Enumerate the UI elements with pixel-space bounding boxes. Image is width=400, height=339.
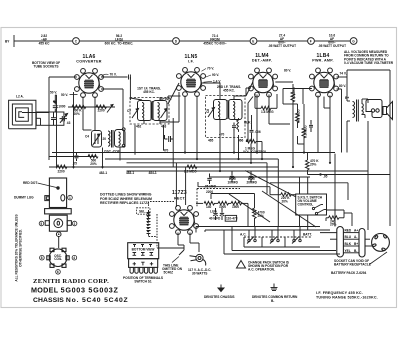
node G: [350, 38, 357, 45]
svg-text:4: 4: [73, 256, 75, 260]
wire 220K: [198, 177, 352, 230]
alignment label 56.2: [105, 34, 134, 45]
svg-text:1000: 1000: [58, 105, 65, 109]
changeover switch dashed bar: [244, 236, 312, 238]
1st IF transformer T1 dashed box: [130, 98, 169, 125]
receptacle labels: [345, 229, 359, 253]
svg-text:20%: 20%: [330, 223, 337, 227]
T1 title 1st IF trans 455KC: [137, 87, 161, 95]
resistor 220K: [281, 193, 292, 204]
cap .05 on bus: [207, 174, 211, 185]
resistor 500 value: [90, 159, 97, 166]
note: bottom view of tube sockets: [32, 61, 60, 69]
svg-text:SEL.: SEL.: [139, 210, 146, 214]
battery strip wires upper: [196, 227, 340, 255]
antenna tuning section box: [36, 112, 64, 125]
AC plug P1: [190, 254, 206, 265]
volume control resistor 1 MEG: [246, 140, 256, 144]
alignment label 72.4: [203, 34, 226, 45]
wire resistor row: [214, 203, 248, 226]
svg-text:110-473: 110-473: [226, 217, 238, 221]
svg-text:RECT.: RECT.: [174, 196, 186, 200]
svg-text:70 V.: 70 V.: [110, 73, 117, 77]
battery receptacle strip right: [359, 229, 365, 258]
S1 bottom view text: [132, 248, 155, 252]
T2 lead wires: [201, 83, 251, 138]
svg-text:140: 140: [206, 205, 212, 209]
electrolytic cap 40MFD a: [213, 208, 217, 220]
svg-text:90 V.: 90 V.: [212, 73, 219, 77]
resistor 500 20%: [88, 155, 98, 159]
S1 terminals top row: [133, 245, 152, 248]
oscillator trimmer C4 box: [92, 131, 102, 148]
battery terminal oval: [61, 195, 65, 201]
svg-text:2200: 2200: [58, 169, 65, 173]
volume control arrow: [250, 144, 252, 147]
changeover contact b: [270, 237, 279, 244]
resistor 2200 on L4: [57, 165, 67, 173]
alignment label 2.82 AF 455KC: [39, 34, 51, 45]
circled 7 terminal below: [56, 232, 61, 237]
junction dot 470K: [319, 173, 321, 175]
svg-text:2: 2: [74, 222, 76, 226]
svg-text:BATTERY RECEPTACLE: BATTERY RECEPTACLE: [334, 262, 371, 266]
T1 core: [151, 101, 153, 120]
T2 primary winding: [214, 100, 228, 120]
socket note: [334, 252, 387, 266]
circled 4: [72, 255, 77, 260]
wire 117Z3 top feeds: [176, 163, 203, 207]
svg-text:455 KC: 455 KC: [39, 41, 51, 45]
vertical bus 1LN5 cathode: [160, 92, 197, 159]
node C: [73, 38, 80, 45]
circled 6: [56, 270, 61, 275]
svg-text:BOTTOM VIEW: BOTTOM VIEW: [132, 248, 155, 252]
output transformer T3 secondary: [362, 104, 364, 115]
1LA6 plate label 70V: [102, 73, 117, 77]
svg-text:FOR 5C40Z WHERE SELENIUM: FOR 5C40Z WHERE SELENIUM: [100, 197, 152, 201]
svg-text:L2 A.: L2 A.: [16, 95, 24, 99]
T2 trimmer cap C9: [232, 123, 236, 132]
battery plug circle: [372, 234, 390, 252]
S1 solder lugs: [130, 267, 157, 273]
node F: [308, 38, 315, 45]
battery pack flange plate: [45, 209, 72, 214]
spst blades: [312, 205, 326, 215]
tube V1 1LA6 converter: [61, 54, 104, 98]
diagonal wire c: [229, 194, 270, 222]
detector diode load wires: [246, 82, 253, 115]
bus wire L2: [105, 158, 278, 160]
svg-text:CHASSIS No. 5C40 5C40Z: CHASSIS No. 5C40 5C40Z: [33, 297, 128, 304]
svg-text:74 V.: 74 V.: [340, 72, 347, 76]
selenium note: [100, 192, 152, 205]
alignment label 10.6: [318, 34, 346, 48]
trimmer arrow under 1LA6: [107, 105, 113, 113]
tube V3 1LM4 det-amp: [249, 53, 292, 97]
svg-text:0-4 VACUUM TUBE VOLTMETER: 0-4 VACUUM TUBE VOLTMETER: [344, 61, 394, 65]
vertical note all resistors: [15, 214, 23, 281]
svg-text:BATTERY PACK Z-6294: BATTERY PACK Z-6294: [331, 271, 367, 275]
svg-text:6: 6: [57, 270, 59, 274]
resistor 1000: [218, 201, 228, 208]
resistor 470K vertical: [306, 159, 320, 170]
junction dot antenna node: [54, 101, 57, 104]
red dot label: [23, 181, 57, 188]
svg-text:470: 470: [163, 149, 169, 153]
junction dots main buses: [53, 100, 331, 172]
svg-text:117Z3: 117Z3: [172, 190, 187, 196]
svg-text:43: 43: [67, 121, 71, 125]
diagonal wire a: [245, 171, 296, 198]
svg-text:462: 462: [136, 125, 142, 129]
bus wire L5: [127, 170, 369, 172]
svg-text:80 V.: 80 V.: [284, 69, 291, 73]
resistor 1500: [231, 201, 241, 208]
svg-text:DOTTED LINES SHOW WIRING: DOTTED LINES SHOW WIRING: [100, 192, 152, 196]
node E: [250, 38, 257, 45]
svg-text:TUBE SOCKETS: TUBE SOCKETS: [34, 64, 59, 68]
denotes chassis symbol: [218, 285, 224, 292]
bus wire L4: [49, 166, 278, 168]
label 40 MFD: [209, 210, 221, 221]
capacitor .006: [250, 125, 254, 137]
battery receptacle strip left: [337, 227, 344, 258]
heater dropping dashed wire: [197, 189, 240, 208]
svg-text:B+: B+: [354, 242, 358, 246]
electrolytic cap 40MFD b: [220, 208, 224, 220]
plug rating label: [188, 268, 211, 276]
change pack switch warning triangle: [237, 261, 246, 269]
svg-text:I.F. FREQUENCY 455 KC.: I.F. FREQUENCY 455 KC.: [316, 291, 363, 295]
cap 470 grid: [165, 135, 174, 142]
dummy lug: [45, 196, 50, 201]
svg-text:SWITCH S1: SWITCH S1: [134, 280, 152, 284]
trimmer capacitor C2 with arrow: [60, 114, 68, 123]
resistor 2.2 MEG on L4: [184, 165, 197, 173]
svg-text:484-1: 484-1: [149, 171, 157, 175]
vertical bus det amp leads: [246, 82, 304, 167]
svg-text:F: F: [310, 39, 312, 43]
svg-text:CONTROL: CONTROL: [298, 203, 314, 207]
svg-text:RED: RED: [345, 229, 352, 233]
osc coil socket bottom view: [47, 248, 69, 267]
T2 core: [227, 100, 229, 119]
svg-text:455 KC.: 455 KC.: [143, 90, 155, 94]
svg-text:455 KC.: 455 KC.: [223, 89, 235, 93]
T2 title 2nd IF trans 455KC: [217, 85, 241, 93]
T1 trimmer arrow left: [132, 109, 139, 119]
oscillator coil secondary box: [115, 130, 126, 148]
resistor 240: [329, 216, 340, 227]
capacitor .05 osc: [75, 153, 79, 162]
svg-text:A-: A-: [354, 235, 357, 239]
tube V5 117Z3 rectifier: [170, 190, 199, 234]
wire lower B bus: [270, 154, 348, 227]
changeover contact a: [247, 237, 256, 244]
svg-text:B+: B+: [345, 96, 349, 100]
svg-text:MODEL 5G003 5G003Z: MODEL 5G003 5G003Z: [31, 286, 119, 295]
svg-text:.006: .006: [255, 130, 261, 134]
speaker voice coil box: [366, 100, 382, 118]
svg-text:DUMMY LUG: DUMMY LUG: [14, 196, 34, 200]
wire det to grid: [255, 94, 277, 108]
wire to socket: [58, 237, 60, 249]
lower terminal circle: [54, 219, 63, 228]
resistor 1.8 MEG: [261, 106, 271, 110]
T2 secondary winding: [229, 100, 243, 120]
capacitor 1000: [53, 99, 58, 112]
T2 trimmer arrow left: [208, 108, 215, 118]
svg-text:A.C. OPERATION.: A.C. OPERATION.: [248, 268, 275, 272]
svg-text:1000: 1000: [219, 205, 226, 209]
svg-text:465: 465: [208, 139, 214, 143]
bus wire L3: [127, 162, 268, 164]
part box 110-473: [225, 215, 238, 221]
spst text: [298, 195, 323, 206]
caps on B+ bus 20MFD: [249, 171, 253, 182]
diagonal wire b: [262, 191, 316, 227]
svg-text:A.C.: A.C.: [240, 233, 246, 237]
speaker cone: [383, 102, 393, 120]
tuning capacitor C1: [51, 112, 56, 125]
circled 5: [39, 221, 44, 226]
battery pack lower case: [49, 215, 67, 231]
bus wire L1: [52, 152, 335, 154]
svg-text:DENOTES CHASSIS: DENOTES CHASSIS: [204, 295, 234, 299]
svg-text:BLK: BLK: [345, 242, 352, 246]
this line omitted note: [162, 257, 183, 275]
svg-text:PWR. AMP.: PWR. AMP.: [312, 59, 334, 63]
svg-text:483-1: 483-1: [126, 171, 134, 175]
svg-text:600 KC. TO 455KC.: 600 KC. TO 455KC.: [105, 41, 134, 45]
resistor 4.7 MEG vertical: [296, 113, 300, 123]
svg-text:1.8 MEG: 1.8 MEG: [261, 110, 274, 114]
T1 trimmer terminals: [122, 128, 125, 147]
circled 2: [72, 221, 77, 226]
resistor 4700 vertical: [253, 208, 265, 218]
S1 terminals mid row: [133, 253, 154, 256]
svg-text:5: 5: [40, 222, 42, 226]
svg-text:COIL: COIL: [54, 257, 62, 261]
svg-text:YEL: YEL: [345, 249, 351, 253]
1 MEG VOL CONTROL label: [243, 147, 267, 155]
alignment chart wire: [14, 35, 350, 47]
S1 caption: [123, 276, 163, 284]
battery pack top case: [49, 178, 66, 208]
svg-text:20: 20: [103, 137, 107, 141]
T2 grid resistor 4700: [237, 118, 239, 132]
node D: [173, 38, 180, 45]
svg-text:TUNING RANGE 535KC.-1620KC.: TUNING RANGE 535KC.-1620KC.: [316, 296, 378, 300]
svg-text:I.F.: I.F.: [188, 60, 194, 64]
loop antenna L2A: [9, 100, 36, 129]
svg-text:C4: C4: [85, 135, 89, 139]
svg-text:1: 1: [69, 196, 71, 200]
spst switch box: [296, 194, 327, 215]
red dot: [56, 186, 59, 189]
svg-text:B-: B-: [271, 299, 274, 303]
grid coupling cap .01: [309, 120, 313, 132]
S1 lower terminals: [133, 262, 154, 265]
socket inner label: [54, 254, 62, 261]
svg-text:RED DOT: RED DOT: [23, 181, 37, 185]
T1 trimmer arrow right: [161, 109, 168, 119]
wire 1LB4 plate to output transformer: [337, 77, 351, 153]
resistor 3.3 MEG vertical: [302, 128, 306, 138]
svg-text:ZENITH RADIO CORP.: ZENITH RADIO CORP.: [33, 278, 109, 285]
vertical bus T2 leads down: [220, 123, 239, 171]
svg-text:BLU: BLU: [345, 235, 352, 239]
wire T1 leads: [101, 75, 181, 129]
svg-text:50 V.: 50 V.: [50, 91, 57, 95]
resistor 140: [204, 201, 214, 208]
svg-text:DET.-AMP.: DET.-AMP.: [252, 59, 272, 63]
svg-text:CONVERTER: CONVERTER: [76, 60, 101, 64]
wire bus to selenium: [149, 202, 175, 249]
svg-text:2200: 2200: [98, 108, 105, 112]
lower lug left: [45, 221, 49, 226]
wire 4700: [211, 194, 255, 227]
selenium rectifier SEL dashed: [137, 208, 151, 214]
svg-text:8: 8: [41, 256, 43, 260]
svg-text:VOL. CONTROL: VOL. CONTROL: [243, 150, 267, 154]
trimmer C4 arrow: [93, 134, 101, 146]
caps on B+ bus 10MFD: [230, 171, 234, 182]
svg-text:C8: C8: [206, 109, 210, 113]
output transformer T3 primary: [353, 100, 359, 122]
resistor 500K under 1LA6: [72, 105, 86, 116]
wire under 1LA6: [68, 106, 115, 108]
svg-text:.05: .05: [323, 175, 328, 179]
T1 secondary lead down: [135, 118, 173, 167]
svg-text:20%: 20%: [90, 162, 97, 166]
wire 470K: [308, 153, 391, 175]
wire 1LA6 pins down to osc: [49, 92, 120, 169]
svg-text:BATT.: BATT.: [303, 233, 312, 237]
changeover contact c: [292, 237, 301, 244]
svg-text:1500: 1500: [232, 205, 239, 209]
svg-text:50 V.: 50 V.: [61, 93, 68, 97]
right vertical bus to battery: [347, 70, 390, 226]
receptacle wire rungs: [320, 233, 372, 253]
2nd IF transformer T2 dashed box: [206, 96, 246, 138]
svg-text:80 V.: 80 V.: [339, 84, 346, 88]
vertical bus 1LB4 leads: [283, 89, 330, 163]
svg-text:DENOTES COMMON RETURN: DENOTES COMMON RETURN: [252, 295, 298, 299]
svg-text:20%: 20%: [74, 112, 81, 116]
wire B bus verticals: [267, 159, 368, 230]
denotes common return symbol: [271, 284, 278, 291]
resistor 10 MEG vertical: [291, 92, 295, 102]
lower lug right: [67, 221, 71, 226]
svg-text:10MFD: 10MFD: [228, 181, 239, 185]
svg-text:30 WATTS: 30 WATTS: [192, 272, 207, 276]
svg-text:A+: A+: [354, 229, 358, 233]
wire loop to tuning cap: [22, 113, 49, 126]
svg-text:B-: B-: [354, 249, 357, 253]
T1 secondary winding: [153, 101, 167, 121]
grid wire 1LA6 to antenna node: [49, 77, 77, 169]
circled 8: [40, 255, 45, 260]
svg-text:5C40Z: 5C40Z: [164, 271, 174, 275]
wire 117Z3 to plug: [157, 233, 199, 256]
svg-text:455KC TO 600~: 455KC TO 600~: [203, 41, 226, 45]
svg-text:.05 WATT OUTPUT: .05 WATT OUTPUT: [318, 44, 346, 48]
change pack switch note: [248, 260, 289, 271]
svg-text:482-1: 482-1: [99, 171, 107, 175]
svg-text:20%: 20%: [310, 162, 317, 166]
IF frequency note: [316, 291, 378, 300]
svg-text:RECTIFIER REPLACES 117Z3: RECTIFIER REPLACES 117Z3: [100, 201, 149, 205]
svg-text:E: E: [252, 39, 254, 43]
note: all voltages measured: [344, 50, 394, 65]
resistor 2200 under 1LA6: [96, 105, 106, 112]
svg-text:.05: .05: [73, 162, 78, 166]
svg-text:20MFD: 20MFD: [247, 181, 258, 185]
svg-text:LUG: LUG: [210, 210, 217, 214]
oscillator coil windings: [108, 130, 113, 148]
selenium stack: [147, 210, 151, 237]
tube V4 1LB4 power amp: [310, 53, 347, 97]
svg-text:70 V.: 70 V.: [207, 67, 214, 71]
switch S1 bottom view box: [128, 243, 159, 259]
svg-text:20%: 20%: [282, 200, 289, 204]
alignment label 27.4: [268, 34, 296, 48]
tube V2 1LN5 IF: [177, 54, 222, 97]
svg-text:.05 WATT OUTPUT: .05 WATT OUTPUT: [268, 44, 296, 48]
svg-text:C7: C7: [127, 109, 131, 113]
svg-text:40 MFD: 40 MFD: [209, 217, 221, 221]
T1 primary winding: [138, 101, 152, 121]
svg-text:OTHERWISE SPECIFIED.: OTHERWISE SPECIFIED.: [19, 229, 23, 267]
terminal circled 1: [68, 195, 73, 200]
S1 lower box: [129, 259, 158, 268]
